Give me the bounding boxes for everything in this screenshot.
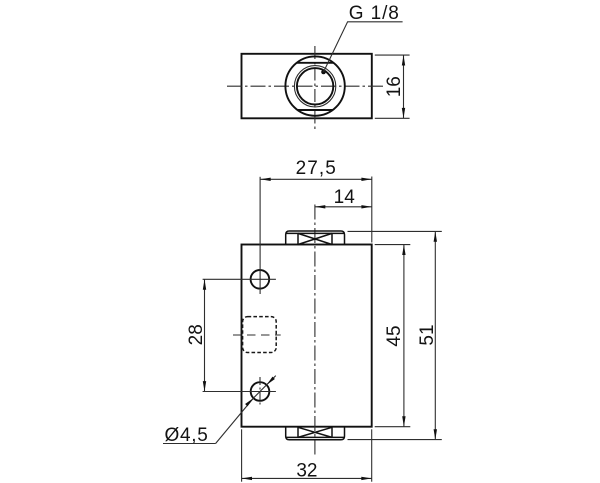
svg-text:51: 51	[417, 324, 438, 345]
top hole vertical crosshair / 27,5 ext	[259, 177, 261, 294]
svg-text:14: 14	[334, 187, 356, 208]
boss flat bottom chord	[297, 109, 332, 111]
arrow lower-left	[245, 398, 253, 406]
vertical centerline	[314, 46, 316, 132]
label diameter 4,5 with leader	[163, 376, 276, 447]
dimension 28	[186, 279, 207, 391]
arrow up	[402, 55, 405, 65]
boss flat top chord	[297, 62, 334, 64]
top view body outline	[242, 54, 372, 119]
svg-text:16: 16	[384, 76, 405, 97]
ext line bottom	[375, 426, 411, 428]
ext line left	[241, 429, 243, 481]
bottom hole horizontal crosshair / 28 ext	[203, 391, 276, 393]
top port boss side view	[286, 231, 345, 245]
bottom hole vertical centerline	[259, 377, 261, 407]
dimension 14	[315, 187, 372, 209]
ext line top	[375, 244, 411, 246]
ext line right	[371, 429, 373, 481]
hidden cavity centerline	[233, 334, 281, 336]
leader segment	[216, 398, 254, 443]
vertical centerline front view	[314, 205, 316, 457]
ext line top	[348, 230, 442, 232]
arrow left	[260, 178, 270, 181]
svg-text:G 1/8: G 1/8	[349, 3, 400, 24]
leader dot on thread	[321, 70, 326, 75]
arrow left	[315, 205, 325, 208]
mounting hole bottom	[251, 382, 270, 401]
arrow right	[361, 205, 371, 208]
arrow down	[402, 416, 405, 426]
tapped hole minor diameter circle	[297, 68, 333, 104]
ext line top	[375, 54, 410, 56]
arrow up	[434, 231, 437, 241]
dim line	[260, 178, 372, 180]
thread major diameter thin circle	[294, 66, 335, 107]
arrow upper-right	[267, 377, 275, 385]
dim line	[204, 279, 206, 391]
leader line to G 1/8	[324, 22, 403, 72]
svg-text:28: 28	[186, 324, 207, 345]
ext line bottom	[375, 117, 410, 119]
arrow right	[361, 178, 371, 181]
underline	[163, 443, 216, 445]
arrow right	[361, 477, 371, 480]
mounting hole top	[251, 270, 270, 289]
arrow up	[203, 279, 206, 289]
arrow up	[402, 245, 405, 255]
dimension 51	[348, 231, 442, 439]
arrow down	[434, 429, 437, 439]
dimension 16	[375, 55, 410, 118]
arrow down	[203, 381, 206, 391]
svg-text:32: 32	[296, 460, 317, 481]
svg-text:27,5: 27,5	[296, 158, 337, 179]
dimension 27,5	[260, 158, 372, 243]
dim line	[403, 55, 405, 118]
arrow down	[402, 108, 405, 118]
port boss circle	[285, 56, 344, 115]
dimension 32	[242, 429, 372, 481]
ext line bottom	[348, 439, 442, 441]
horizontal centerline	[227, 85, 386, 87]
right ext line	[371, 177, 373, 243]
dim line	[403, 245, 405, 427]
arrow left	[242, 477, 252, 480]
dim line	[242, 477, 372, 479]
bottom port boss side view	[286, 427, 345, 440]
front view body outline	[242, 245, 372, 427]
svg-text:45: 45	[384, 325, 405, 346]
dim line	[434, 231, 436, 439]
diameter line through hole	[253, 376, 275, 399]
dimension 45	[375, 245, 411, 427]
top hole horizontal crosshair / 28 ext	[203, 278, 276, 280]
hidden cavity dashed square	[243, 317, 277, 353]
dim line	[315, 206, 372, 208]
